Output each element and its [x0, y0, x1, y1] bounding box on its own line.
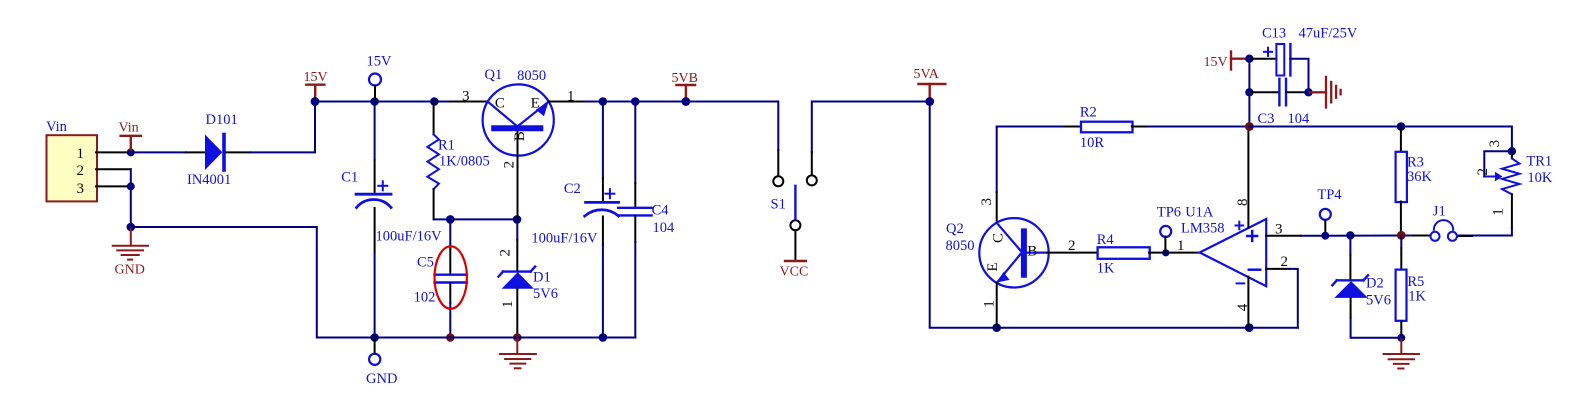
svg-text:R5: R5	[1407, 274, 1424, 290]
svg-text:5VA: 5VA	[914, 67, 940, 82]
node junction TP6/output	[1162, 249, 1169, 256]
power port 5VB	[677, 85, 696, 98]
node junction D1 bottom	[513, 333, 522, 342]
wire pin2 stub	[96, 168, 131, 170]
node junction pin3	[127, 182, 135, 190]
svg-text:TP4: TP4	[1317, 187, 1342, 203]
resistor R3	[1396, 127, 1433, 236]
node junction R1 top	[430, 97, 439, 106]
svg-text:5V6: 5V6	[1366, 292, 1391, 308]
svg-text:3: 3	[77, 181, 85, 197]
node junction 5VA	[925, 97, 934, 106]
svg-text:TP6: TP6	[1157, 204, 1181, 220]
test point TP4	[1317, 187, 1342, 240]
wire diode to corner	[226, 151, 250, 153]
node junction Q2 emitter bottom	[992, 323, 1001, 332]
potentiometer TR1	[1457, 140, 1553, 236]
power port 5VA	[919, 84, 946, 98]
svg-text:E: E	[985, 263, 1001, 272]
svg-text:R4: R4	[1097, 232, 1115, 248]
node junction C13/C3 right	[1304, 88, 1312, 96]
diode D1 zener	[498, 219, 558, 337]
ground (middle, under D1)	[500, 339, 536, 368]
power port Vin	[121, 136, 141, 150]
svg-text:4: 4	[1235, 303, 1251, 311]
wire R1 bottom to Q1 base node	[435, 218, 518, 220]
node junction R3 top	[1397, 122, 1406, 131]
svg-text:10R: 10R	[1080, 135, 1105, 151]
svg-text:10K: 10K	[1527, 170, 1553, 186]
wire pin2-pin3-gnd vertical	[130, 169, 132, 227]
terminal 15V circle	[369, 74, 381, 86]
svg-text:S1: S1	[771, 196, 786, 212]
wire rail right section	[1249, 127, 1512, 152]
node junction C5 bottom	[446, 333, 455, 342]
switch S1	[771, 102, 930, 231]
node junction C3 left	[1245, 88, 1253, 96]
svg-text:3: 3	[462, 89, 470, 105]
wire R2 to C3 node	[1148, 126, 1249, 128]
transistor Q1	[450, 67, 585, 219]
svg-text:5VB: 5VB	[672, 71, 698, 86]
wire pin3 node row	[1325, 235, 1413, 237]
svg-text:C5: C5	[417, 254, 434, 270]
svg-text:VCC: VCC	[780, 265, 809, 280]
ground GND (left)	[113, 229, 148, 260]
capacitor C2	[531, 102, 618, 338]
svg-text:GND: GND	[115, 263, 145, 278]
svg-text:1: 1	[567, 89, 575, 105]
node junction C5 top	[446, 215, 455, 224]
svg-text:1: 1	[982, 300, 998, 308]
svg-text:U1A: U1A	[1185, 204, 1214, 220]
wire pin3 stub	[96, 185, 131, 187]
wire rail Q1 to C2/C4	[586, 101, 779, 103]
svg-text:3: 3	[1275, 222, 1283, 238]
pin 3 wire	[1266, 235, 1301, 237]
svg-text:1K/0805: 1K/0805	[439, 153, 490, 169]
svg-text:Q1: Q1	[485, 67, 503, 83]
svg-text:1: 1	[500, 301, 516, 309]
node junction C4 top	[631, 97, 640, 106]
svg-text:47uF/25V: 47uF/25V	[1299, 26, 1358, 42]
svg-text:104: 104	[653, 220, 676, 236]
svg-text:TR1: TR1	[1526, 154, 1552, 170]
connector Vin (yellow box)	[46, 119, 97, 201]
svg-text:LM358: LM358	[1181, 221, 1225, 237]
jumper J1	[1431, 204, 1457, 241]
svg-text:C1: C1	[341, 169, 358, 185]
svg-text:C2: C2	[564, 181, 581, 197]
wire Q2 collector rail to R2	[997, 126, 1065, 128]
svg-text:2: 2	[498, 249, 514, 257]
svg-text:104: 104	[1288, 111, 1311, 127]
ground (right top, rotated earth)	[1310, 77, 1341, 108]
svg-text:15V: 15V	[1204, 55, 1228, 70]
svg-text:Q2: Q2	[946, 221, 964, 237]
node junction Vin	[127, 148, 135, 156]
node junction 15V	[311, 97, 320, 106]
svg-text:B: B	[1027, 243, 1037, 259]
svg-text:15V: 15V	[367, 54, 393, 70]
svg-text:100uF/16V: 100uF/16V	[376, 228, 443, 244]
ground (bottom right)	[1384, 339, 1419, 369]
svg-text:C: C	[495, 95, 505, 111]
svg-text:2: 2	[1475, 168, 1491, 176]
node junction C2 bottom	[599, 333, 608, 342]
svg-text:C3: C3	[1258, 111, 1275, 127]
svg-text:100uF/16V: 100uF/16V	[531, 230, 598, 246]
node junction R3/R5/J1 (red)	[1397, 231, 1406, 240]
resistor R1	[427, 102, 489, 220]
capacitor C1	[341, 102, 442, 338]
node junction C13 left	[1245, 55, 1253, 63]
node junction C2 top	[599, 97, 608, 106]
resistor R4	[1097, 232, 1200, 277]
svg-text:2: 2	[1281, 254, 1289, 270]
svg-text:R1: R1	[438, 137, 455, 153]
svg-text:B: B	[512, 131, 528, 141]
svg-text:C: C	[991, 233, 1007, 243]
svg-text:3: 3	[979, 198, 995, 206]
node junction D2 top	[1346, 231, 1354, 239]
GND net wire (connector to bottom rail)	[131, 227, 636, 338]
svg-text:IN4001: IN4001	[187, 172, 231, 188]
resistor R5	[1396, 236, 1427, 338]
power port 15V (left)	[306, 85, 324, 98]
svg-text:8: 8	[1235, 198, 1251, 206]
svg-text:1: 1	[1177, 238, 1185, 254]
test point TP6	[1157, 204, 1181, 252]
node junction rail/pin8 (red)	[1245, 122, 1254, 131]
svg-text:1: 1	[77, 146, 85, 162]
svg-text:1K: 1K	[1097, 261, 1115, 277]
terminal GND circle	[369, 354, 380, 365]
node junction R5 bottom (red)	[1397, 334, 1405, 342]
svg-text:2: 2	[77, 163, 85, 179]
node junction D1 top	[513, 215, 522, 224]
svg-text:Vin: Vin	[119, 121, 139, 136]
capacitor C13	[1249, 26, 1357, 93]
svg-text:E: E	[531, 95, 540, 111]
power port VCC	[794, 231, 796, 261]
pin 8 wire	[1247, 127, 1249, 228]
svg-text:8050: 8050	[946, 238, 975, 254]
wire Vin to diode	[131, 151, 186, 153]
svg-text:102: 102	[414, 289, 436, 305]
capacitor C4	[618, 102, 675, 338]
svg-text:3: 3	[1487, 140, 1503, 148]
svg-text:R2: R2	[1080, 105, 1097, 121]
svg-text:C4: C4	[652, 203, 670, 219]
power port 15V (right)	[1231, 52, 1245, 70]
svg-text:1K: 1K	[1408, 289, 1426, 305]
svg-text:36K: 36K	[1407, 169, 1433, 185]
svg-text:J1: J1	[1433, 204, 1446, 220]
capacitor C5	[414, 219, 467, 337]
diode D2 zener	[1332, 236, 1401, 338]
node junction 5VB	[682, 97, 691, 106]
svg-text:D101: D101	[206, 112, 238, 128]
wire 5VA down to bottom rail	[930, 102, 1298, 328]
svg-text:15V: 15V	[304, 70, 328, 85]
resistor R2	[1065, 105, 1148, 151]
wire 15V node down to rail	[1248, 59, 1250, 127]
wire top rail left	[315, 101, 450, 103]
node junction opamp pin4 bottom	[1245, 323, 1254, 332]
wire pin1 stub	[96, 151, 131, 153]
op-amp U1A LM358	[1177, 127, 1325, 328]
svg-text:1: 1	[1491, 208, 1507, 216]
svg-text:R3: R3	[1407, 154, 1424, 170]
svg-text:2: 2	[502, 161, 518, 169]
svg-text:GND: GND	[366, 371, 397, 387]
svg-text:8050: 8050	[517, 68, 546, 84]
svg-text:C13: C13	[1262, 26, 1286, 42]
diode D101	[187, 112, 238, 188]
svg-text:D2: D2	[1366, 276, 1384, 292]
svg-text:5V6: 5V6	[533, 286, 558, 302]
svg-text:2: 2	[1068, 238, 1076, 254]
pin 4 wire	[1247, 277, 1249, 328]
node junction gnd	[127, 223, 136, 232]
node junction C1 bottom	[370, 333, 379, 342]
svg-text:Vin: Vin	[46, 119, 68, 135]
svg-text:D1: D1	[533, 270, 551, 286]
node junction C1 top	[370, 97, 379, 106]
transistor Q2	[946, 127, 1049, 328]
capacitor C3	[1249, 79, 1310, 127]
wire Q2 base to R4	[1047, 252, 1096, 254]
pin 2 wire wrap	[1266, 268, 1290, 270]
